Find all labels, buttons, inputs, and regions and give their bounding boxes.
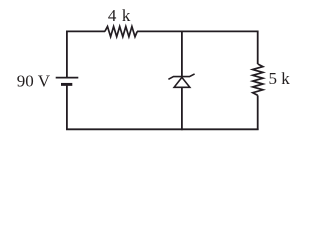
svg-text:90 V: 90 V [17, 72, 51, 91]
label 5 k [269, 69, 291, 88]
wire left upper (source top lead) [66, 31, 68, 78]
wire middle lower (zener anode lead) [181, 87, 183, 130]
zener diode [168, 74, 194, 87]
resistor 4 k (top) [105, 27, 137, 37]
svg-text:5 k: 5 k [269, 69, 291, 88]
wire middle upper (zener cathode lead) [181, 31, 183, 76]
wire left lower (source bottom lead) [66, 84, 68, 130]
label 4 k [108, 6, 131, 25]
svg-text:4 k: 4 k [108, 6, 131, 25]
wire bottom segment [66, 128, 259, 130]
wire right lower (5k bottom lead) [257, 95, 259, 130]
wire top-right segment [137, 30, 258, 32]
label 90 V [17, 72, 51, 91]
battery 90 V voltage source [56, 78, 79, 85]
wire top-left segment [67, 30, 105, 32]
wire right upper (5k top lead) [257, 31, 259, 65]
resistor 5 k (right) [253, 64, 263, 95]
